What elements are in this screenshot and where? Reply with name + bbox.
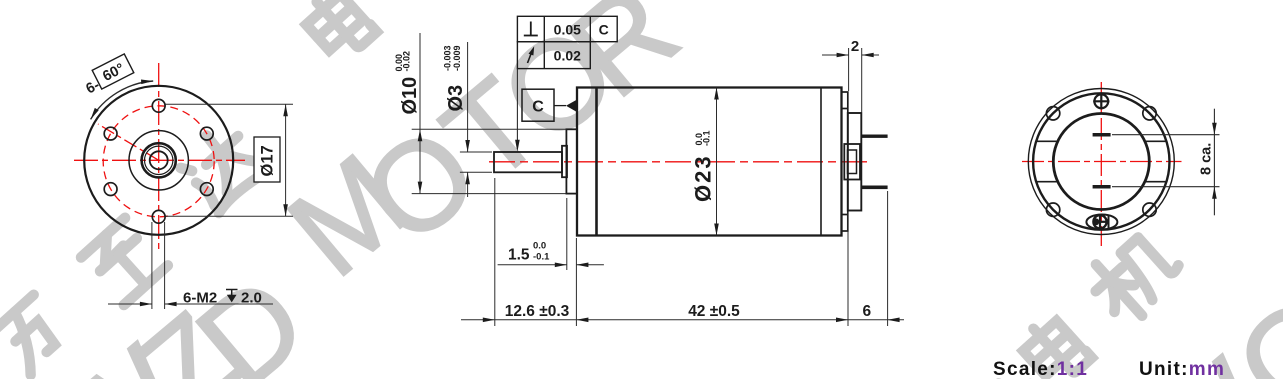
front shaft circle <box>150 151 168 169</box>
datum leader and triangle <box>554 105 566 107</box>
rear cap circle <box>1053 114 1149 210</box>
8ca dimension line <box>1213 109 1215 216</box>
svg-text:2.0: 2.0 <box>241 290 262 307</box>
svg-text:Ø23: Ø23 <box>691 154 716 202</box>
rear top screw <box>1093 93 1109 109</box>
dia3 extension lines <box>460 152 492 172</box>
feature control frame row2 <box>517 42 590 69</box>
svg-text:-0.1: -0.1 <box>533 252 550 263</box>
rear leader lines <box>1112 135 1220 187</box>
end bell tabs <box>842 109 848 215</box>
shaft <box>494 152 562 172</box>
rear terminal bar bottom <box>1093 185 1111 189</box>
dim1.5 extension line <box>566 198 568 270</box>
svg-text:-0.003: -0.003 <box>443 45 453 71</box>
dia10 extension lines <box>412 129 567 193</box>
svg-text:0.02: 0.02 <box>554 48 581 64</box>
rear plate line <box>820 88 822 236</box>
front mounting holes 6x <box>104 99 213 223</box>
end bell <box>842 92 848 231</box>
svg-text:-0.02: -0.02 <box>402 51 412 72</box>
bottom dimension line <box>461 319 904 321</box>
bearing boss <box>566 129 577 193</box>
dia17 extension lines <box>166 104 294 216</box>
front boss circle <box>129 131 188 190</box>
dia17 boxed label <box>254 137 280 182</box>
svg-text:8 ca.: 8 ca. <box>1199 143 1215 175</box>
rear terminal bar top <box>1093 133 1111 137</box>
60deg dimension arc <box>91 81 154 119</box>
dia23 dimension line <box>716 88 718 236</box>
motor body <box>577 88 842 236</box>
svg-text:C: C <box>532 99 544 116</box>
svg-text:1.5: 1.5 <box>508 247 530 264</box>
svg-text:-0.009: -0.009 <box>452 45 462 71</box>
front plate line <box>595 88 598 236</box>
svg-text:6-: 6- <box>84 77 103 97</box>
svg-text:0.0: 0.0 <box>533 241 546 252</box>
8ca label <box>1199 143 1215 175</box>
svg-text:Ø10: Ø10 <box>399 77 421 115</box>
svg-text:Unit:mm: Unit:mm <box>1139 359 1225 379</box>
rear outer circle <box>1028 89 1174 235</box>
dim2 dimension line <box>822 54 879 56</box>
FCF leader arrow <box>516 69 518 149</box>
svg-text:0.05: 0.05 <box>554 22 581 38</box>
dia17 dimension line <box>285 104 287 216</box>
dia3 label <box>445 85 467 112</box>
60deg boxed label <box>92 54 134 89</box>
svg-text:C: C <box>599 22 609 38</box>
brush cap <box>848 113 862 211</box>
svg-text:-0.1: -0.1 <box>702 130 712 146</box>
dim2 extension lines <box>849 48 862 112</box>
6-M2 dimension line <box>108 303 152 305</box>
dia10 label <box>399 77 421 115</box>
svg-text:6-M2: 6-M2 <box>183 290 217 307</box>
front ring circle <box>145 146 173 174</box>
shaft collar <box>562 146 567 177</box>
datum C box <box>522 89 554 121</box>
6-M2 extension lines <box>152 222 165 309</box>
rear bottom screw <box>1086 215 1117 230</box>
svg-text:2: 2 <box>851 38 859 55</box>
terminal bottom <box>861 186 887 190</box>
side red centerline <box>489 161 869 163</box>
dia23 label <box>691 154 716 202</box>
rear red centerlines <box>1022 82 1182 246</box>
bottom extension lines <box>495 178 888 326</box>
svg-text:6: 6 <box>862 303 871 320</box>
feature control frame row1 <box>517 16 617 41</box>
svg-text:Scale:1:1: Scale:1:1 <box>993 359 1088 379</box>
rear notch lines <box>1036 141 1166 181</box>
rear small holes 4x <box>1046 107 1156 217</box>
front view red centerlines <box>74 63 245 252</box>
6- prefix label <box>84 77 103 97</box>
rear bearing boss <box>844 144 860 180</box>
svg-text:Ø17: Ø17 <box>259 145 277 176</box>
terminal top <box>861 135 887 138</box>
rear boss inner <box>848 150 857 174</box>
dim1.5 dimension line <box>498 264 604 266</box>
front outer circle <box>84 86 233 235</box>
svg-text:Ø3: Ø3 <box>445 85 467 112</box>
svg-text:12.6 ±0.3: 12.6 ±0.3 <box>505 303 570 320</box>
svg-text:42 ±0.5: 42 ±0.5 <box>688 303 740 320</box>
rear ring circle <box>1033 93 1169 229</box>
dia10 dimension line <box>419 33 421 194</box>
front bearing circle <box>142 143 176 177</box>
dia3 dimension line <box>467 42 469 197</box>
